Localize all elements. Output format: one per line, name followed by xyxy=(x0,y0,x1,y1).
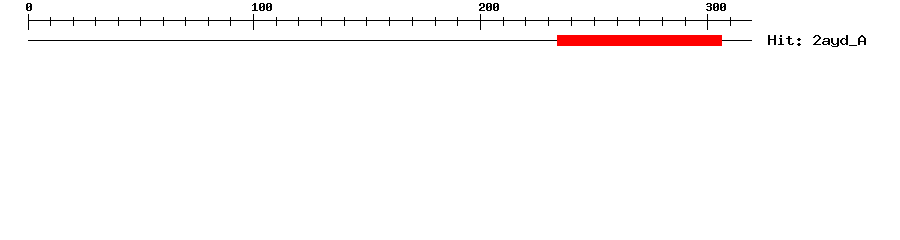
ruler major tick 100 xyxy=(253,14,254,30)
ruler axis line xyxy=(28,20,752,21)
ruler minor tick 220 xyxy=(525,17,526,26)
ruler minor tick 120 xyxy=(298,17,299,26)
ruler minor tick 170 xyxy=(412,17,413,26)
ruler minor tick 50 xyxy=(140,17,141,26)
ruler minor tick 270 xyxy=(639,17,640,26)
ruler minor tick 310 xyxy=(730,17,731,26)
ruler minor tick 90 xyxy=(230,17,231,26)
ruler minor tick 280 xyxy=(662,17,663,26)
ruler minor tick 10 xyxy=(50,17,51,26)
ruler minor tick 40 xyxy=(118,17,119,26)
ruler minor tick 80 xyxy=(208,17,209,26)
ruler minor tick 130 xyxy=(321,17,322,26)
ruler minor tick 250 xyxy=(594,17,595,26)
ruler label 200 xyxy=(479,3,499,11)
ruler minor tick 260 xyxy=(617,17,618,26)
ruler minor tick 240 xyxy=(571,17,572,26)
ruler minor tick 30 xyxy=(95,17,96,26)
hit alignment region bar xyxy=(557,35,722,46)
ruler label 300 xyxy=(706,3,726,11)
query sequence line xyxy=(28,40,752,41)
ruler minor tick 190 xyxy=(457,17,458,26)
hit label Hit: 2ayd_A xyxy=(768,35,866,47)
ruler minor tick 180 xyxy=(435,17,436,26)
ruler minor tick 60 xyxy=(163,17,164,26)
ruler minor tick 210 xyxy=(503,17,504,26)
ruler major tick 200 xyxy=(480,14,481,30)
ruler major tick 300 xyxy=(707,14,708,30)
ruler minor tick 230 xyxy=(548,17,549,26)
ruler minor tick 70 xyxy=(185,17,186,26)
ruler label 0 xyxy=(26,3,32,11)
ruler minor tick 140 xyxy=(344,17,345,26)
ruler minor tick 150 xyxy=(366,17,367,26)
background xyxy=(0,0,900,60)
ruler major tick 0 xyxy=(28,14,29,30)
ruler minor tick 110 xyxy=(276,17,277,26)
ruler minor tick 160 xyxy=(389,17,390,26)
ruler minor tick 20 xyxy=(73,17,74,26)
ruler minor tick 290 xyxy=(685,17,686,26)
ruler label 100 xyxy=(252,3,272,11)
